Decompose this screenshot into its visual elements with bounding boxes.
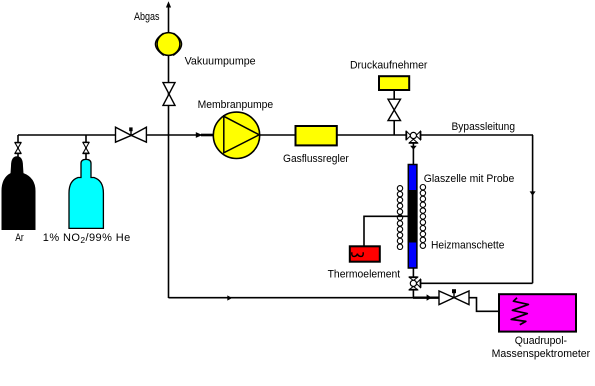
wire: main horizontal supply line	[18, 134, 533, 136]
wire: stub pressure transducer to valve	[393, 90, 395, 100]
valve: NO2/He cylinder valve	[83, 141, 90, 143]
svg-text:Bypassleitung: Bypassleitung	[452, 121, 516, 133]
valve V2: main line bowtie with stem flag	[116, 127, 132, 142]
component: gas flow controller box	[296, 126, 337, 145]
valve: Ar cylinder valve	[15, 142, 22, 144]
component: quadrupole mass spectrometer box (magenta)	[499, 294, 576, 331]
pump: membrane pump triangle	[224, 116, 259, 153]
svg-text:1% NO2/99% He: 1% NO2/99% He	[43, 232, 131, 245]
wire: thick segment into needle valve	[413, 297, 439, 299]
svg-text:Glaszelle mit Probe: Glaszelle mit Probe	[424, 173, 515, 185]
svg-text:Quadrupol-: Quadrupol-	[515, 335, 568, 347]
wire: stem below three-way valve with flow arrow down	[412, 143, 414, 165]
svg-text:Membranpumpe: Membranpumpe	[198, 99, 274, 111]
wire: thick inlet segment into membrane pump	[201, 134, 214, 137]
valve V5: three-way valve below glass cell	[409, 277, 421, 290]
gas cylinder 1% NO2 / 99% He (cyan bottle)	[69, 159, 103, 228]
pump: vacuum pump U1 side lobes	[155, 33, 163, 55]
wire: vertical line from Abgas arrow through vacuum pump down to bottom line	[168, 5, 170, 298]
wire: glass cell bottom stub	[412, 268, 414, 277]
svg-text:Thermoelement: Thermoelement	[328, 269, 401, 281]
wire: stub to Ar cylinder valve	[17, 135, 19, 157]
svg-text:Druckaufnehmer: Druckaufnehmer	[350, 60, 428, 72]
wire: thermocouple lead from cell	[364, 216, 408, 246]
valve V3: vertical bowtie below pressure transducer	[388, 99, 401, 110]
component: thermocouple readout box (red)	[350, 246, 380, 261]
arrow: flow down into glass cell	[410, 146, 417, 150]
wire: stub from valve to bottom line	[412, 290, 414, 298]
svg-text:Heizmanschette: Heizmanschette	[431, 240, 504, 252]
wire: bypass vertical line right side	[532, 135, 534, 283]
wire: stub to NO2/He cylinder valve	[85, 135, 87, 160]
valve V4: three-way valve on main line above glass cell	[406, 131, 420, 143]
wire: bottom line from left riser to needle valve	[169, 297, 440, 299]
svg-text:Massenspektrometer: Massenspektrometer	[492, 348, 591, 360]
arrow: small flow arrow on bottom line	[227, 295, 232, 300]
component: pressure transducer box	[379, 76, 409, 90]
arrow: exhaust (Abgas) outlet arrow up	[166, 1, 171, 7]
component: heating mantle left coil	[397, 186, 402, 250]
svg-text:Vakuumpumpe: Vakuumpumpe	[185, 56, 256, 68]
valve V1: vertical bowtie below vacuum pump	[163, 83, 175, 94]
arrow: bypass flow arrow down	[530, 191, 536, 195]
arrow: flow arrow on thick segment	[427, 294, 432, 300]
gas cylinder Ar (black bottle)	[2, 157, 35, 230]
svg-text:Ar: Ar	[15, 232, 24, 244]
symbol inside thermocouple box	[352, 252, 363, 256]
component: heating mantle right coil	[420, 185, 425, 249]
valve V6: needle valve before mass spectrometer	[439, 291, 454, 305]
pump: membrane pump circle	[213, 112, 259, 158]
wire: bypass bottom horizontal back to cell outlet valve	[420, 282, 532, 284]
wire: needle valve to mass spectrometer	[469, 298, 499, 312]
arrow: flow arrow before membrane pump	[196, 132, 203, 138]
symbol: filament coil inside mass spectrometer	[511, 298, 528, 325]
pump: vacuum pump circle	[157, 33, 180, 56]
component: glass cell tube (blue with black sample zone)	[408, 165, 417, 269]
svg-text:Abgas: Abgas	[134, 11, 160, 23]
wire: stub valve to main line	[393, 121, 395, 135]
svg-text:Gasflussregler: Gasflussregler	[283, 153, 349, 165]
